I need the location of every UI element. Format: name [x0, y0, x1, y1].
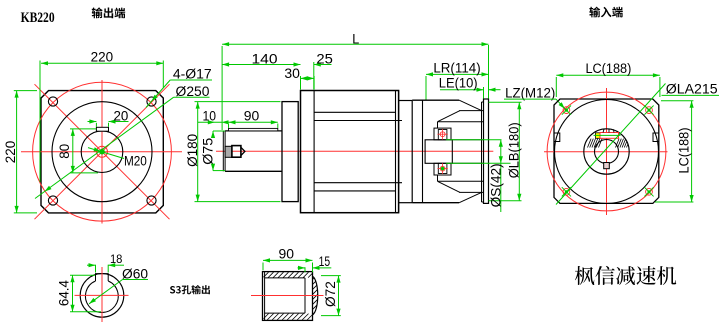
svg-text:15: 15 [319, 254, 331, 270]
svg-text:LE(10): LE(10) [439, 76, 478, 92]
input red centerline vertical [606, 88, 608, 215]
dimension 80 [70, 128, 96, 130]
dimension d180 boss [195, 101, 281, 103]
dimension LC(188) right [661, 100, 693, 102]
sleeve bottom wall hatch [263, 313, 265, 315]
input bore lines [452, 139, 483, 141]
dimension 90 sleeve [262, 263, 264, 271]
svg-text:30: 30 [284, 66, 300, 82]
svg-text:M20: M20 [124, 154, 147, 170]
gearbox body [301, 91, 399, 213]
input red centerline horizontal [544, 151, 668, 153]
svg-text:Ø72: Ø72 [323, 281, 339, 307]
sleeve bore lines [265, 277, 305, 279]
clamp detail top ticks [603, 129, 604, 132]
corner bolt holes 4x d17 [48, 97, 57, 106]
svg-text:220: 220 [3, 141, 19, 164]
svg-text:90: 90 [244, 108, 260, 124]
input flange circle d188 [555, 100, 659, 204]
bell housing outline [412, 99, 459, 101]
dimension 140 [222, 64, 300, 66]
svg-text:LR(114): LR(114) [433, 61, 480, 77]
dimension 90 shaft key [228, 124, 230, 128]
body inner vertical left [313, 91, 315, 213]
input flange square [554, 99, 659, 203]
clamp detail: green line [594, 134, 621, 136]
side notch right [653, 133, 659, 142]
red centerline diagonal 2 [35, 84, 170, 219]
svg-text:Ø75: Ø75 [200, 138, 216, 165]
svg-text:ØS(42): ØS(42) [488, 163, 504, 207]
dimension LE(10) [483, 87, 485, 99]
dimension 30 [300, 76, 302, 90]
input corner holes M12 [563, 107, 570, 114]
dimension 220 horizontal [39, 61, 41, 183]
svg-text:18: 18 [110, 252, 123, 266]
clamp detail: yellow element [596, 133, 601, 139]
input bore circle [595, 140, 619, 164]
sleeve red centerline [251, 295, 324, 297]
flange boss d180 [282, 102, 298, 202]
label S3 hole output [170, 285, 210, 294]
sleeve body outline [263, 272, 313, 321]
svg-text:Ø180: Ø180 [185, 134, 201, 167]
side notch left [554, 133, 560, 142]
bolt circle diameter 250 (red) [33, 82, 172, 221]
svg-text:80: 80 [57, 144, 73, 159]
detail red centerlines [75, 294, 129, 296]
dimension dS(42) [446, 139, 502, 141]
input flange plate [484, 99, 489, 203]
output shaft circle d75 with keyway [81, 131, 123, 173]
clamp bolt bottom [440, 166, 445, 171]
dimension L [221, 46, 223, 130]
title text fengxin reducer [575, 266, 676, 285]
bell slants top [459, 100, 481, 110]
input bore keyway [604, 163, 610, 169]
output shaft side [225, 131, 282, 171]
sleeve top wall hatch [263, 271, 265, 273]
svg-text:KB220: KB220 [21, 10, 55, 26]
svg-text:LC(188): LC(188) [585, 61, 631, 77]
dimension 20 keyway [95, 123, 97, 127]
body inner horizontal lines [314, 111, 395, 113]
svg-text:10: 10 [202, 108, 216, 124]
dimension d72 [321, 275, 341, 277]
svg-text:25: 25 [316, 52, 333, 68]
dimension LR(114) [425, 76, 427, 100]
svg-text:LC(188): LC(188) [677, 128, 693, 174]
label input end [589, 7, 623, 18]
spigot circle diameter 180 [52, 102, 152, 202]
dimension LC(188) top [555, 77, 557, 97]
dimension 10 [198, 121, 223, 123]
clamp bolt top [440, 132, 445, 137]
bell slants bottom [459, 192, 481, 202]
svg-text:20: 20 [114, 108, 129, 124]
svg-text:90: 90 [279, 246, 295, 262]
dimension d75 [213, 130, 225, 132]
clamp detail: red bar [600, 133, 619, 139]
M20 tapped hole [97, 146, 108, 157]
shaft key [229, 128, 278, 131]
label output end [92, 7, 126, 18]
svg-text:140: 140 [252, 52, 278, 68]
output flange square [41, 91, 163, 213]
input hub outer circle [584, 129, 629, 174]
svg-text:ØLB(180): ØLB(180) [506, 122, 522, 178]
dimension 64.4 [70, 274, 95, 276]
M20 center hole at shaft tip [225, 146, 232, 157]
input coupling block [425, 140, 452, 164]
svg-text:220: 220 [91, 49, 114, 65]
dimension 220 vertical [14, 90, 37, 92]
detail bore d60 with keyway [96, 274, 109, 281]
svg-text:L: L [352, 31, 359, 47]
body inner vertical right [395, 91, 397, 213]
red centerline diagonal 1 [35, 84, 170, 219]
input bolt circle dLA215 (red) [547, 92, 666, 211]
dimension 25 [313, 62, 315, 90]
red centerline horizontal [21, 151, 182, 153]
dimension 18 [95, 265, 97, 273]
dimension dLB(180) [489, 101, 522, 103]
bell end face [481, 102, 483, 202]
red centerline vertical [101, 80, 103, 224]
svg-text:64.4: 64.4 [56, 280, 72, 306]
adapter plate [398, 91, 400, 213]
detail outer circle [80, 274, 124, 318]
dimension 15 sleeve [304, 267, 306, 272]
side view red centerline [216, 150, 493, 152]
